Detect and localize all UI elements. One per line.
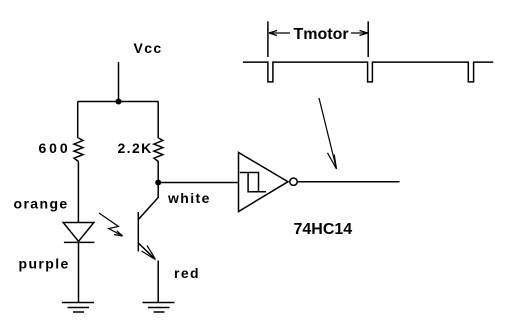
svg-text:white: white xyxy=(167,190,211,206)
svg-text:purple: purple xyxy=(19,256,70,272)
svg-text:red: red xyxy=(174,265,200,281)
svg-text:2.2K: 2.2K xyxy=(118,140,153,156)
svg-text:orange: orange xyxy=(14,196,69,212)
svg-text:Vcc: Vcc xyxy=(134,40,163,56)
svg-text:Tmotor: Tmotor xyxy=(294,26,349,43)
svg-text:74HC14: 74HC14 xyxy=(294,221,353,238)
svg-text:600: 600 xyxy=(39,140,71,156)
